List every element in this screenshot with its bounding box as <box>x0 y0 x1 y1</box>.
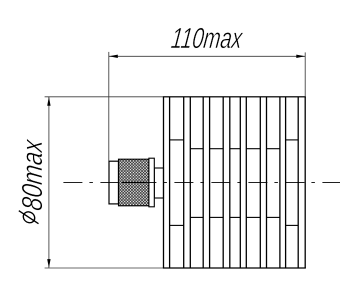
fin 8 <box>297 97 299 268</box>
hub step in gap 1 <box>170 139 184 141</box>
dim 110: dimension line <box>109 55 305 57</box>
heatsink body bottom edge <box>163 267 306 269</box>
fin 6 <box>259 97 261 268</box>
fin 7 <box>279 97 281 268</box>
heatsink body top edge <box>163 96 306 98</box>
wire: bottom extension line (d80 bottom) <box>45 267 306 269</box>
connector ring behind knurl <box>149 158 154 207</box>
label d80max <box>16 136 49 223</box>
axis dash over knurl <box>122 181 146 183</box>
fin 5 <box>239 97 241 268</box>
phi symbol <box>19 211 39 224</box>
dim 110: left arrowhead <box>109 55 118 58</box>
fin 2 <box>183 97 185 268</box>
dim d80: dimension line <box>48 97 50 268</box>
dim d80: top arrowhead <box>47 97 50 106</box>
fin 1 <box>163 97 165 268</box>
wire: top extension line (d80 top, over fin tops) <box>45 96 306 98</box>
core in gap 5 <box>246 148 260 150</box>
svg-text:80max: 80max <box>16 136 49 212</box>
dim d80: bottom arrowhead <box>47 259 50 268</box>
dim 110: right extension line <box>304 52 306 96</box>
connector neck <box>154 168 163 198</box>
connector knurled nut <box>119 159 149 206</box>
dim 110: right arrowhead <box>296 55 305 58</box>
connector nose N-plug front <box>109 161 119 204</box>
core in gap 4 <box>230 148 241 150</box>
centre axis line (dash-dot) <box>63 181 340 183</box>
label 110max <box>169 23 245 55</box>
hub step in gap 7 <box>286 139 299 141</box>
core in gap 2 <box>190 148 203 150</box>
fin 4 <box>222 97 224 268</box>
svg-text:110max: 110max <box>169 23 245 55</box>
core in gap 3 <box>210 148 224 150</box>
core in gap 6 <box>267 148 280 150</box>
fin 3 <box>202 97 204 268</box>
dim 110: left extension line <box>108 52 110 161</box>
